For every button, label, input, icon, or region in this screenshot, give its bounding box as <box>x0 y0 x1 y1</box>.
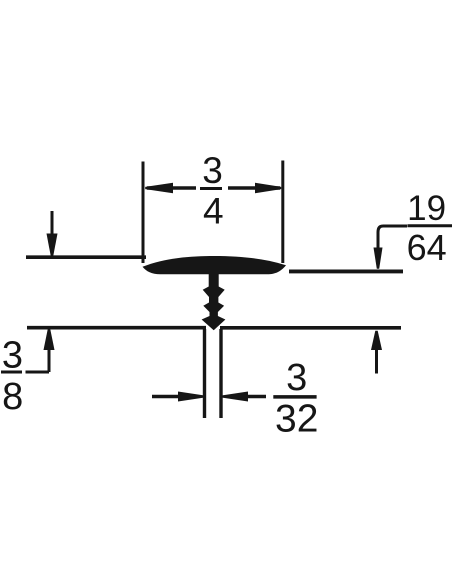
arrowhead onto left slot wall <box>178 392 204 402</box>
up arrowhead of 19/64 under right bottom line <box>371 331 382 350</box>
up arrow shaft of 19/64 <box>375 349 378 374</box>
svg-text:4: 4 <box>203 191 224 232</box>
arrowhead left of 3/4 <box>145 183 173 193</box>
svg-text:3: 3 <box>202 150 223 191</box>
left slot wall <box>203 329 206 418</box>
molding cap <box>143 256 287 274</box>
left bottom surface line <box>27 326 206 330</box>
down arrowhead onto left surface line <box>47 234 58 256</box>
svg-text:3: 3 <box>286 357 307 399</box>
right bottom surface line <box>220 326 401 330</box>
dimension 3/32 fraction bar <box>273 395 316 399</box>
up arrowhead of 3/8 under left bottom line <box>44 329 55 350</box>
dimension 3/32 right arrow line <box>247 395 266 399</box>
svg-text:3: 3 <box>2 334 23 376</box>
dimension line left segment of 3/4 <box>147 186 196 189</box>
dimension line right segment of 3/4 <box>228 186 280 189</box>
dimension 19/64 fraction bar <box>407 224 452 227</box>
arrowhead right of 3/4 <box>255 183 281 193</box>
extension line left of 3/4 <box>142 162 145 264</box>
svg-text:64: 64 <box>407 227 447 268</box>
dimension 3/4 fraction bar <box>200 187 222 190</box>
barbed stem of molding <box>202 271 226 330</box>
leader line from 3/8 fraction <box>26 371 50 374</box>
arrowhead onto right slot wall <box>222 392 248 402</box>
right surface line <box>289 269 403 273</box>
leader line from 19/64 fraction <box>378 226 407 248</box>
svg-text:32: 32 <box>275 398 318 441</box>
svg-text:8: 8 <box>2 376 23 418</box>
dimension 3/8 fraction bar <box>1 371 22 374</box>
extension line right of 3/4 <box>281 161 284 264</box>
svg-text:19: 19 <box>407 189 446 228</box>
down arrowhead of 19/64 onto right surface line <box>374 248 383 269</box>
left surface line <box>26 255 146 259</box>
up arrow shaft of 3/8 <box>48 349 51 372</box>
dimension 3/32 left arrow line <box>152 395 180 399</box>
right slot wall <box>219 329 222 418</box>
down arrow shaft above left surface <box>51 211 54 235</box>
